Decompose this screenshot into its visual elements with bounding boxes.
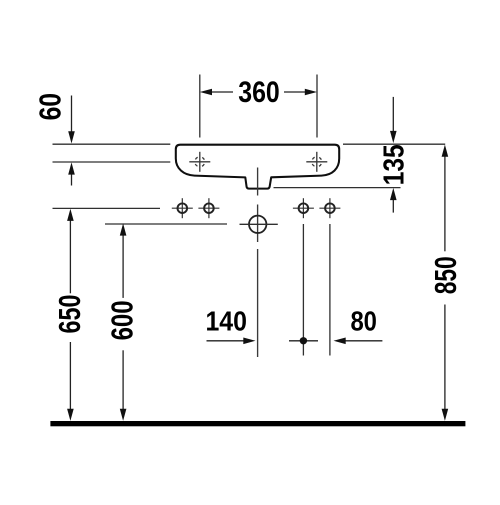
svg-text:140: 140 (205, 306, 247, 337)
dimension 850 line upper segment (444, 156, 446, 252)
extension line rim top right (343, 143, 445, 145)
fixing hole left B (198, 198, 219, 218)
washbasin outline (176, 145, 339, 189)
drain hole circle (240, 216, 278, 233)
svg-text:650: 650 (53, 295, 87, 334)
extension line drain bottom right (274, 187, 401, 189)
dimension dot terminator (300, 337, 307, 344)
extension line rim top left (53, 143, 171, 145)
dimension 135 lower arrow (392, 199, 394, 213)
dimension line through dot (289, 340, 318, 342)
svg-text:850: 850 (429, 256, 463, 294)
dimension 650 line upper segment (69, 220, 71, 294)
svg-text:80: 80 (350, 306, 377, 337)
dimension 360 extension line right (316, 75, 318, 138)
svg-text:600: 600 (106, 300, 140, 340)
extension line fixing hole right B down (329, 224, 331, 356)
dimension 360 line left segment with arrow (210, 91, 233, 93)
dimension 60 lower arrow (71, 174, 73, 186)
dimension 140 arrow (207, 340, 245, 342)
extension line drain height level (105, 223, 227, 225)
dimension 60 upper arrow (71, 96, 73, 133)
svg-text:360: 360 (238, 76, 280, 109)
dimension 850 line lower segment (444, 305, 446, 411)
dimension 600 line lower segment (122, 350, 124, 410)
dimension 600 line upper segment (122, 234, 124, 298)
dimension 650 line lower segment (69, 342, 71, 410)
dimension 135 upper arrow (392, 97, 394, 132)
extension line fixing hole right A down (302, 224, 304, 356)
fixing hole right B (319, 198, 340, 218)
dimension 360 extension line left (199, 75, 201, 138)
fixing hole left A (172, 198, 193, 218)
extension line fixing hole level left (53, 207, 161, 209)
tap hole marker right (306, 152, 327, 172)
svg-text:60: 60 (34, 93, 68, 121)
dimension 360 line right segment with arrow (284, 91, 307, 93)
floor line (50, 421, 465, 426)
svg-text:135: 135 (379, 144, 411, 185)
centre line (dashed, through drain and bottle trap) (257, 168, 259, 358)
fixing hole right A (293, 198, 314, 218)
extension line tap hole level left (53, 161, 171, 163)
dimension 80 arrow (345, 340, 383, 342)
tap hole marker left (189, 152, 210, 172)
